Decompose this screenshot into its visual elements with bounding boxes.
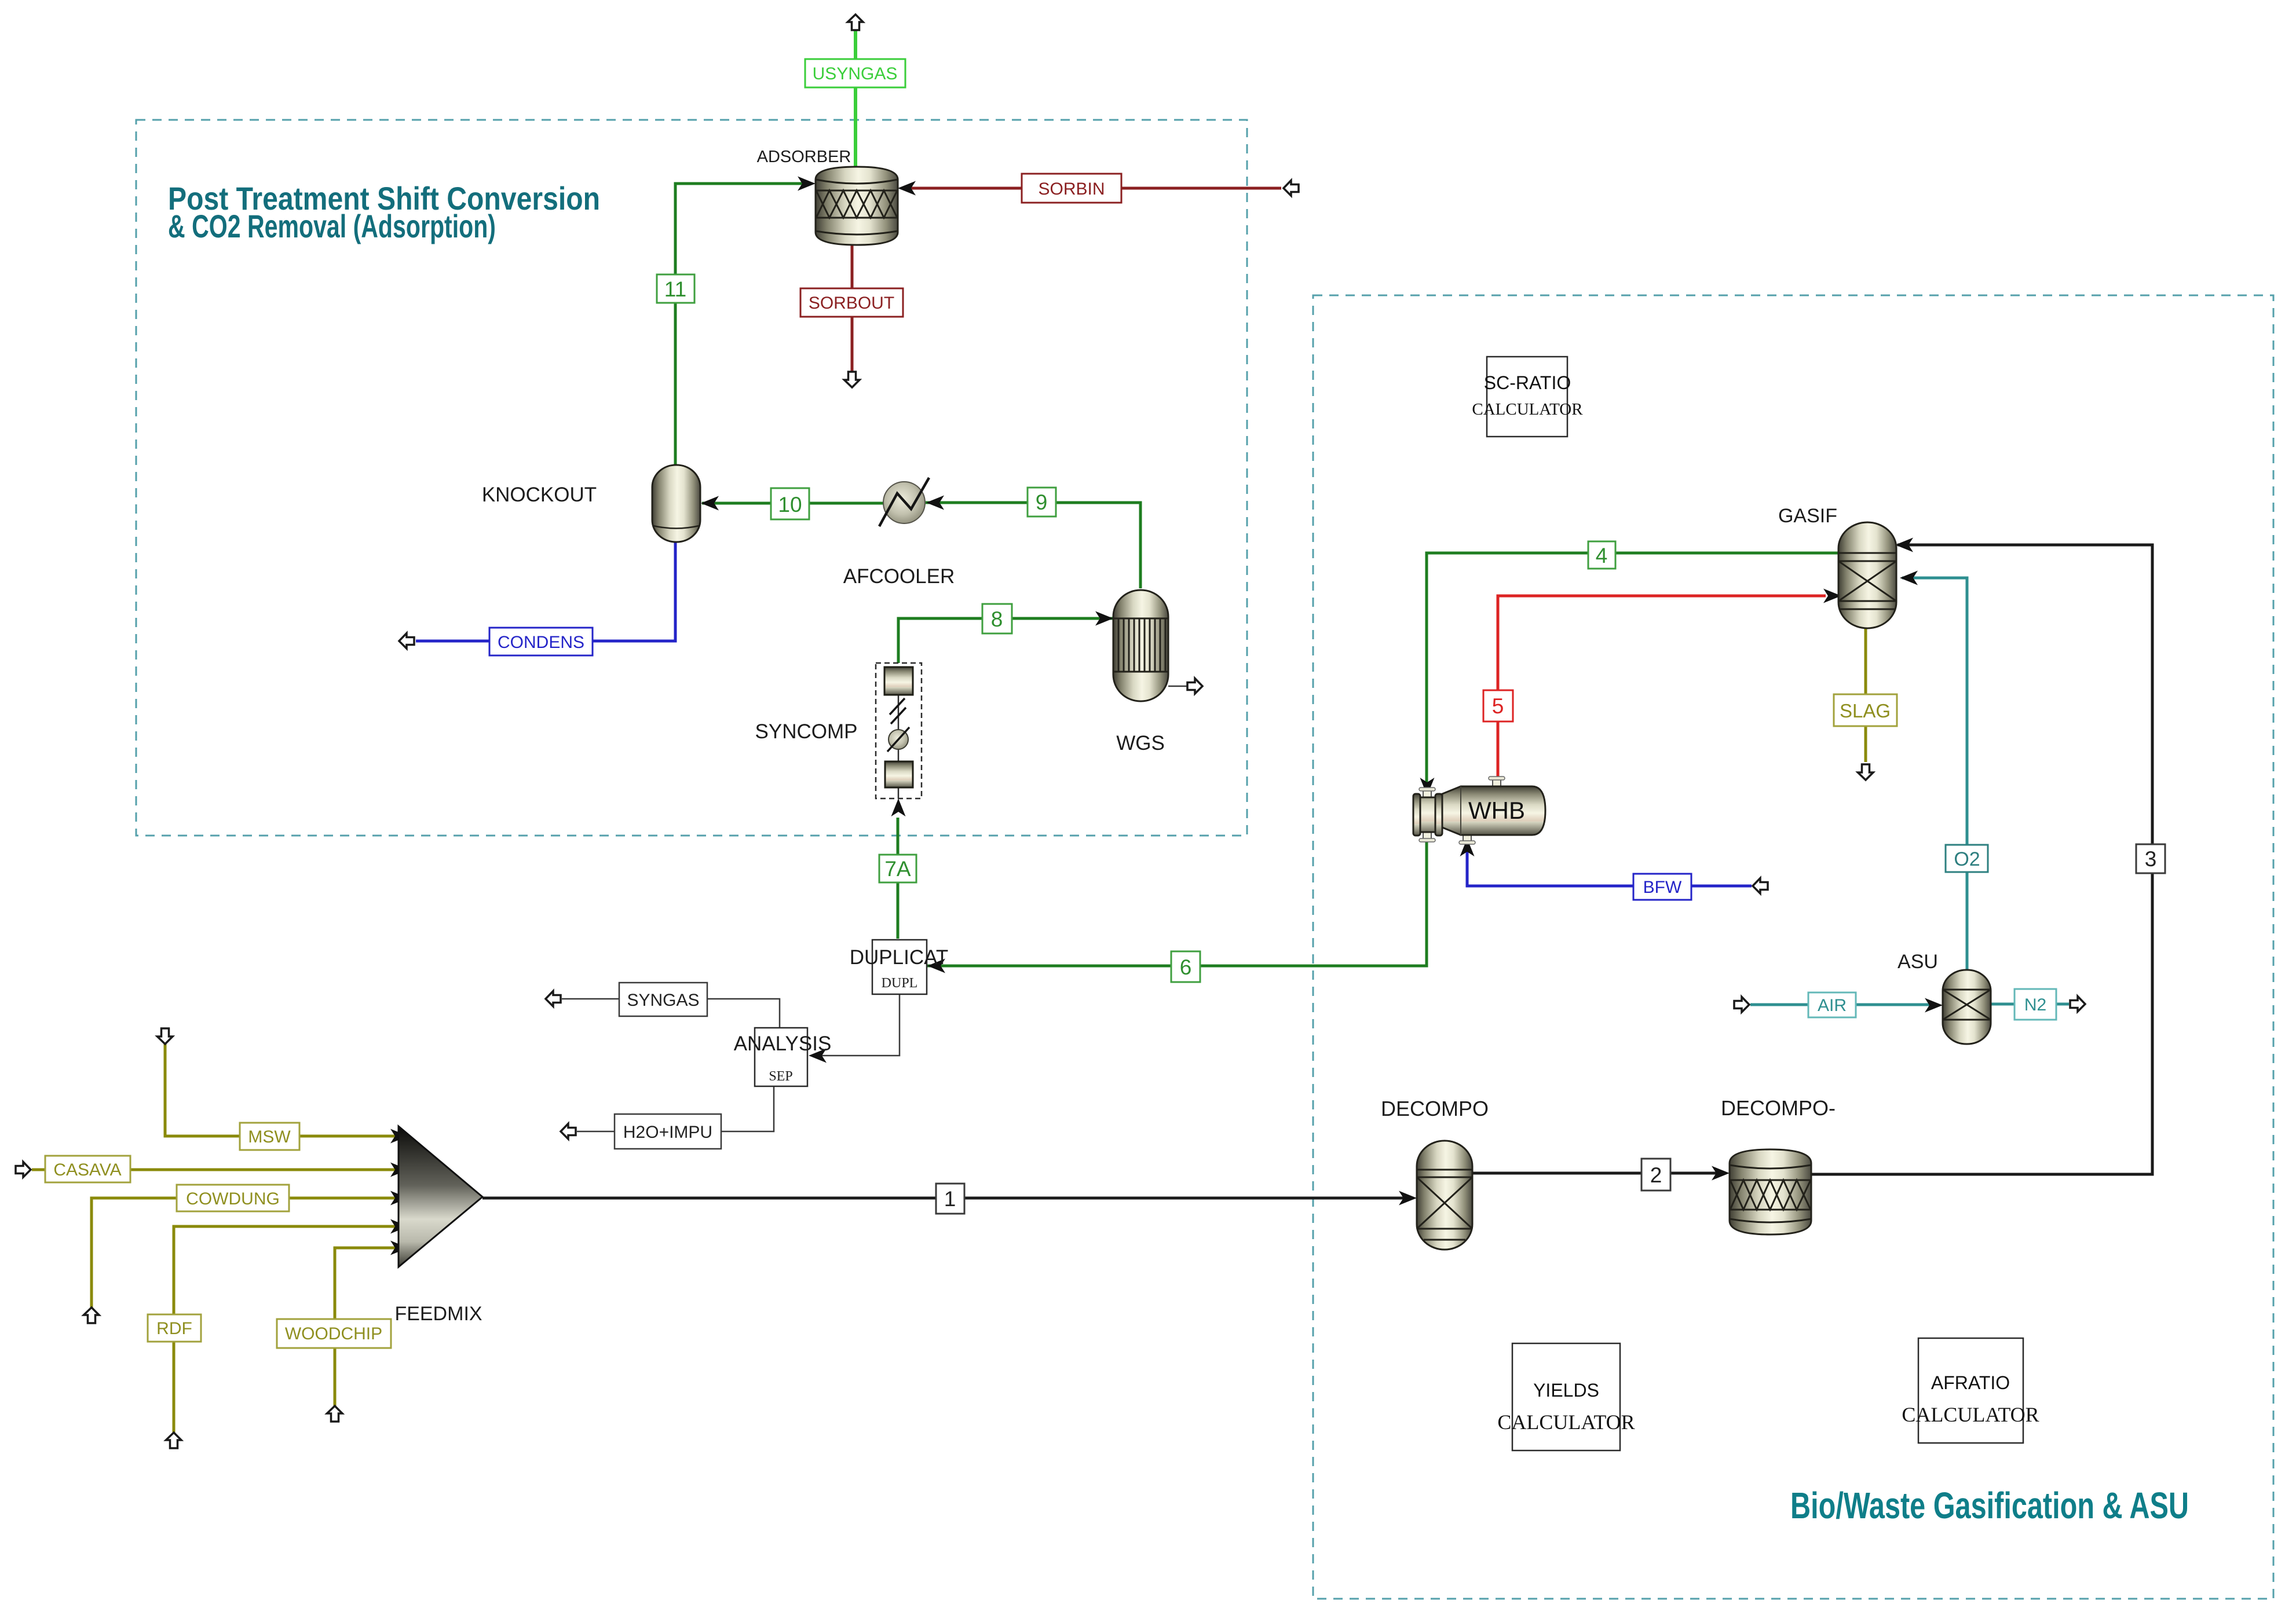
svg-text:1: 1 (944, 1187, 956, 1211)
svg-text:BFW: BFW (1643, 878, 1682, 897)
svg-text:& CO2 Removal (Adsorption): & CO2 Removal (Adsorption) (168, 208, 496, 244)
svg-text:6: 6 (1180, 955, 1192, 979)
svg-text:AFRATIO: AFRATIO (1931, 1372, 2010, 1393)
svg-text:2: 2 (1650, 1163, 1662, 1187)
svg-text:COWDUNG: COWDUNG (186, 1189, 280, 1208)
svg-text:RDF: RDF (156, 1319, 192, 1338)
svg-text:Bio/Waste Gasification & ASU: Bio/Waste Gasification & ASU (1790, 1485, 2189, 1526)
svg-text:YIELDS: YIELDS (1533, 1380, 1599, 1401)
svg-text:SYNGAS: SYNGAS (627, 991, 699, 1010)
svg-text:O2: O2 (1954, 848, 1980, 870)
svg-text:WOODCHIP: WOODCHIP (285, 1324, 382, 1343)
svg-text:11: 11 (664, 277, 686, 301)
svg-text:10: 10 (778, 493, 802, 517)
svg-text:ASU: ASU (1898, 951, 1938, 973)
svg-text:CONDENS: CONDENS (498, 633, 584, 652)
svg-text:5: 5 (1492, 694, 1504, 718)
svg-text:WHB: WHB (1468, 797, 1525, 824)
svg-text:CASAVA: CASAVA (53, 1160, 121, 1180)
svg-text:H2O+IMPU: H2O+IMPU (623, 1123, 712, 1142)
svg-text:4: 4 (1596, 544, 1608, 567)
svg-text:CALCULATOR: CALCULATOR (1472, 400, 1583, 419)
svg-text:3: 3 (2145, 847, 2157, 871)
svg-text:DUPLICAT: DUPLICAT (850, 946, 949, 969)
svg-text:DUPL: DUPL (882, 976, 918, 991)
svg-text:USYNGAS: USYNGAS (813, 64, 898, 83)
svg-text:FEEDMIX: FEEDMIX (394, 1303, 482, 1325)
svg-text:AIR: AIR (1818, 996, 1847, 1015)
svg-text:ANALYSIS: ANALYSIS (734, 1032, 832, 1055)
svg-text:SC-RATIO: SC-RATIO (1484, 372, 1571, 393)
svg-text:9: 9 (1036, 490, 1048, 514)
svg-text:ADSORBER: ADSORBER (757, 148, 851, 166)
svg-text:GASIF: GASIF (1778, 505, 1837, 527)
svg-text:7A: 7A (884, 857, 911, 881)
svg-text:MSW: MSW (248, 1127, 291, 1147)
svg-text:DECOMPO: DECOMPO (1381, 1097, 1489, 1120)
svg-text:KNOCKOUT: KNOCKOUT (482, 483, 597, 506)
svg-text:N2: N2 (2024, 995, 2046, 1014)
svg-text:8: 8 (991, 607, 1003, 631)
svg-text:CALCULATOR: CALCULATOR (1902, 1403, 2039, 1426)
svg-text:AFCOOLER: AFCOOLER (843, 565, 955, 588)
svg-text:DECOMPO-: DECOMPO- (1721, 1096, 1836, 1120)
svg-text:WGS: WGS (1116, 732, 1165, 754)
svg-text:SORBOUT: SORBOUT (809, 294, 894, 313)
svg-text:SYNCOMP: SYNCOMP (755, 720, 858, 743)
svg-text:SLAG: SLAG (1840, 700, 1891, 721)
svg-text:SEP: SEP (769, 1069, 792, 1084)
svg-text:CALCULATOR: CALCULATOR (1497, 1411, 1635, 1434)
svg-text:SORBIN: SORBIN (1038, 180, 1105, 199)
